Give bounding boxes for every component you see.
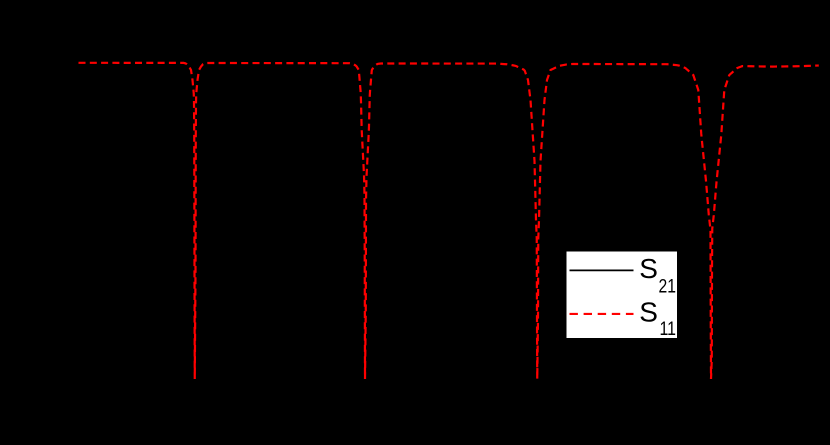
svg-text:S: S <box>639 297 658 328</box>
svg-text:S: S <box>639 253 658 284</box>
legend box <box>567 252 678 339</box>
S11 reflection curve (red dashed) <box>79 63 819 379</box>
svg-text:21: 21 <box>659 277 677 298</box>
legend S21 line sample <box>570 269 634 271</box>
svg-text:11: 11 <box>660 319 677 340</box>
legend S11 line sample <box>570 313 634 315</box>
